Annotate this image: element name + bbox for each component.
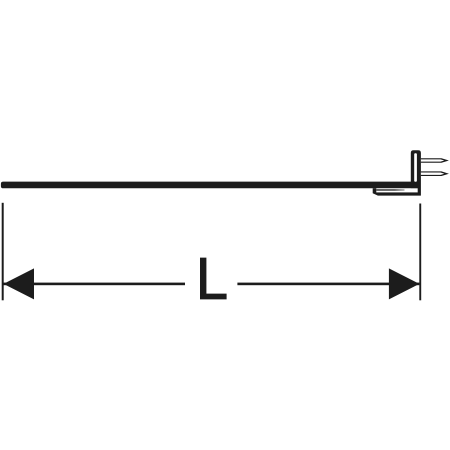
pin 2 (lower fastening pin, outline) [421, 171, 449, 176]
arrowhead left [4, 268, 35, 299]
rod (long horizontal rail) [1, 182, 411, 189]
pin 2 body (white core) [421, 173, 444, 175]
pin 1 body (white core) [421, 159, 444, 161]
pin 1 (upper fastening pin, outline) [421, 158, 449, 163]
arrowhead right [389, 268, 420, 299]
dimension line right segment [237, 283, 419, 286]
label L (dimension length) [200, 258, 227, 300]
bracket post slot (white groove in post) [414, 153, 417, 181]
extension line right [419, 204, 421, 301]
dimension line left segment [4, 283, 186, 286]
extension line left [2, 203, 4, 300]
rod edge line inside channel [376, 189, 404, 190]
bracket channel slot (white opening under rod) [376, 188, 417, 192]
bracket (right end clip: vertical post + under-channel) [373, 150, 421, 195]
